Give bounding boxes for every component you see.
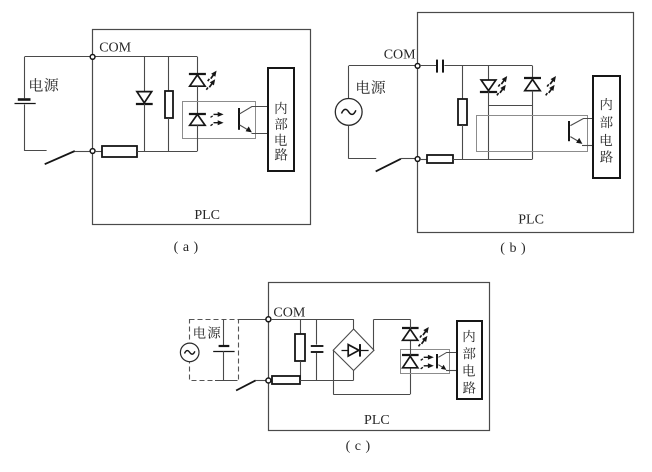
wire: into bridge top (c) xyxy=(353,319,355,329)
wire: resistor branch upper (b) xyxy=(462,66,464,99)
wire: emitter to internal circuit (c) xyxy=(446,370,457,372)
internal circuit box (b) xyxy=(593,76,620,178)
resistor R1 vertical (b) xyxy=(458,99,467,125)
wire: top rail (c) xyxy=(271,319,354,321)
flash arrows indicator LED (c) xyxy=(419,326,431,340)
resistor R-in horizontal (b) xyxy=(420,159,427,161)
flash arrows LED2 (b) xyxy=(546,75,558,89)
battery cell (c) xyxy=(219,345,230,347)
wire: opto LED cathode down (a) xyxy=(197,125,199,151)
bridge inner diode (c) xyxy=(342,350,369,352)
wire: resistor branch lower (a) xyxy=(168,118,170,151)
wire: supply bottom drop (b) xyxy=(348,125,350,159)
LED D1 down (b) xyxy=(481,80,496,91)
AC source G1 (b) xyxy=(335,99,362,126)
svg-text:( b ): ( b ) xyxy=(500,241,526,256)
optocoupler box U1 (b) xyxy=(477,116,588,152)
wire: top rail (b) xyxy=(444,65,532,67)
wire: diode branch upper (a) xyxy=(144,57,146,92)
svg-text:COM: COM xyxy=(273,305,305,320)
wire: resistor branch lower (c) xyxy=(300,361,302,380)
wire: below battery (a) xyxy=(24,105,26,151)
svg-text:PLC: PLC xyxy=(364,413,390,428)
wire: LED string top to bridge right vertex (c) xyxy=(410,319,412,328)
optocoupler box U1 (c) xyxy=(401,350,450,374)
internal circuit box (c) xyxy=(457,321,482,399)
wire: emitter to internal circuit (a) xyxy=(252,133,268,135)
AC source G1 (c) xyxy=(180,343,199,362)
wire: supply top drop (b) xyxy=(348,66,350,99)
node COM terminal (a) xyxy=(90,55,95,60)
wire: top rail from COM (a) xyxy=(95,56,197,58)
wire: bottom to switch (b) xyxy=(349,158,377,160)
svg-text:( a ): ( a ) xyxy=(174,240,199,255)
svg-text:( c ): ( c ) xyxy=(346,439,371,454)
wire: supply left drop (a) xyxy=(24,57,26,98)
node input terminal (a) xyxy=(90,149,95,154)
phototransistor Q1 (a) xyxy=(238,108,240,130)
opto LED emitter diode (a) xyxy=(189,113,206,115)
phototransistor Q1 (b) xyxy=(568,121,570,141)
wire: LED2 branch upper (b) xyxy=(532,66,534,79)
node input terminal (c) xyxy=(266,378,271,383)
LED indicator (a) xyxy=(189,73,206,75)
node COM terminal (b) xyxy=(415,64,420,69)
wire: capacitor branch lower (c) xyxy=(316,353,318,380)
light arrows opto (a) xyxy=(211,112,224,118)
flash arrows LED1 (b) xyxy=(497,75,509,89)
svg-text:PLC: PLC xyxy=(194,208,220,223)
wire: emitter to internal circuit (b) xyxy=(582,145,593,147)
svg-text:PLC: PLC xyxy=(518,213,544,228)
wire: resistor branch upper (a) xyxy=(168,57,170,91)
capacitor C1 series (b) xyxy=(436,60,438,73)
PLC enclosure box (c) xyxy=(269,283,490,431)
label 内部电路 (c) xyxy=(464,330,475,342)
wire: bottom rail (a) xyxy=(137,151,197,153)
wire: COM to capacitor (b) xyxy=(420,65,436,67)
diode D1 clamp (a) xyxy=(137,92,152,103)
wire: bridge left vertex down (c) xyxy=(333,350,335,394)
wire: COM to supply (b) xyxy=(349,65,416,67)
wire: supply to COM (c) xyxy=(238,319,266,321)
label 电源 (c) xyxy=(194,326,205,338)
wire: switch to terminal (c) xyxy=(256,380,266,382)
resistor R1 vertical (a) xyxy=(165,91,173,118)
light arrows opto (c) xyxy=(421,355,434,361)
wire: switch to input terminal (a) xyxy=(75,151,90,153)
battery cell power source (a) xyxy=(18,98,31,101)
LED D2 up (b) xyxy=(524,77,541,79)
label 电源 (b) xyxy=(357,80,370,93)
wire: external top wire to supply (a) xyxy=(25,56,91,58)
wire: bottom dc rail (c) xyxy=(333,394,410,396)
wire: bottom rail (b) xyxy=(453,159,533,161)
optocoupler box U1 (a) xyxy=(183,102,256,139)
wire: battery branch lower (c) xyxy=(223,351,225,380)
label 内部电路 (b) xyxy=(601,98,612,110)
wire: bottom external to switch (a) xyxy=(25,150,47,152)
wire: LED1 branch upper (b) xyxy=(488,66,490,80)
dashed supply box (c) xyxy=(190,320,239,381)
wire: bottom rail to bridge (c) xyxy=(300,380,354,382)
svg-text:COM: COM xyxy=(99,41,131,56)
resistor R-in horizontal (c) xyxy=(271,380,272,382)
wire: between LEDs (a) xyxy=(197,86,199,113)
wire: LED junction bar (b) xyxy=(489,105,533,107)
wire: LED branch from top rail (a) xyxy=(197,57,199,74)
PLC enclosure box (a) xyxy=(93,30,311,225)
wire: LED2 branch lower (b) xyxy=(532,91,534,159)
phototransistor Q1 (c) xyxy=(436,354,438,368)
bridge rectifier diamond (c) xyxy=(333,329,374,371)
wire: between LEDs (c) xyxy=(410,340,412,355)
wire: LED string lower (c) xyxy=(410,368,412,394)
capacitor C1 (c) xyxy=(311,345,324,347)
wire: battery branch upper (c) xyxy=(223,319,225,345)
PLC enclosure box (b) xyxy=(418,13,634,233)
flash arrows of indicator LED (a) xyxy=(206,69,218,83)
wire: bottom solid to switch (c) xyxy=(215,380,238,382)
switch blade (b) xyxy=(376,159,401,172)
resistor R-in horizontal (a) xyxy=(95,151,102,153)
internal circuit box (a) xyxy=(268,68,294,171)
label 电源 (a) xyxy=(30,78,43,91)
resistor R1 vertical (c) xyxy=(295,334,305,361)
wire: diode branch lower (a) xyxy=(144,104,146,151)
svg-text:COM: COM xyxy=(384,47,416,62)
LED indicator (c) xyxy=(402,327,419,329)
switch blade (a) xyxy=(45,151,75,164)
label 内部电路 (a) xyxy=(276,102,287,114)
switch blade (c) xyxy=(236,380,256,390)
wire: resistor branch lower (b) xyxy=(462,125,464,159)
wire: switch to terminal (b) xyxy=(401,158,415,160)
node input terminal (b) xyxy=(415,157,420,162)
wire: LED1 branch lower (b) xyxy=(488,92,490,159)
wire: resistor branch upper (c) xyxy=(300,319,302,334)
wire: capacitor branch upper (c) xyxy=(316,319,318,344)
node COM terminal (c) xyxy=(266,317,271,322)
opto LED (c) xyxy=(402,354,419,356)
